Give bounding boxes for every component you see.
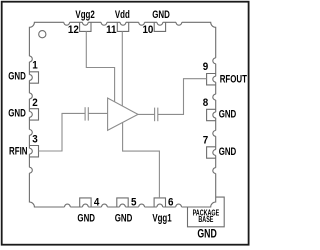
wire Vgg1: amplifier to pin 6 <box>123 122 160 198</box>
svg-text:GND: GND <box>219 108 237 121</box>
pin 8 pad (GND) <box>207 109 217 120</box>
pin 6 pad (Vgg1) <box>154 198 165 208</box>
svg-text:7: 7 <box>203 134 209 147</box>
svg-text:3: 3 <box>32 133 38 146</box>
package outline <box>29 22 215 207</box>
castellation bump right edge at 133.4 <box>213 131 217 137</box>
castellation bump left edge at 132.4 <box>29 130 33 136</box>
svg-text:GND: GND <box>8 107 26 120</box>
castellation bump left edge at 59.0 <box>29 56 33 62</box>
svg-text:RFOUT: RFOUT <box>220 73 247 86</box>
label PACKAGE BASE <box>193 210 220 225</box>
svg-text:5: 5 <box>131 196 137 209</box>
svg-text:Vgg2: Vgg2 <box>75 9 95 22</box>
svg-text:BASE: BASE <box>198 216 213 224</box>
svg-text:11: 11 <box>106 23 117 36</box>
castellation bump right edge at 170.6 <box>213 168 217 174</box>
pin 11 pad (Vdd) <box>117 21 128 31</box>
castellation bump top edge at 141.6 <box>139 21 145 25</box>
wire Vdd: pin 11 to amplifier <box>121 31 123 106</box>
svg-text:GND: GND <box>152 9 170 22</box>
package base tab outline <box>188 197 225 227</box>
wire RFIN: pin 3 to C1 <box>39 113 86 151</box>
pin 3 pad (RFIN) <box>29 146 39 157</box>
pin 2 pad (GND) <box>29 109 39 120</box>
svg-text:9: 9 <box>203 60 209 73</box>
svg-text:Vgg1: Vgg1 <box>152 212 172 225</box>
svg-text:GND: GND <box>115 212 133 225</box>
svg-text:8: 8 <box>203 96 209 109</box>
pin 9 pad (RFOUT) <box>207 74 217 85</box>
castellation bump left edge at 170.2 <box>29 167 33 173</box>
pin 10 pad (GND) <box>154 21 165 31</box>
castellation bump bot edge at 67.4 <box>65 204 71 208</box>
castellation bump bot edge at 178.6 <box>176 204 182 208</box>
pin 1 indicator dot <box>39 31 46 38</box>
castellation bump bot edge at 104.4 <box>102 204 108 208</box>
pin 12 pad (Vgg2) <box>80 21 91 31</box>
pin 5 pad (GND) <box>117 198 128 208</box>
wire amplifier output to C2 <box>138 113 155 115</box>
castellation bump top edge at 66.7 <box>64 21 70 25</box>
svg-text:GND: GND <box>8 70 26 83</box>
svg-text:RFIN: RFIN <box>9 145 27 158</box>
castellation bump top edge at 104.0 <box>101 21 107 25</box>
castellation bump top edge at 178.9 <box>176 21 182 25</box>
wire C1 to amplifier input <box>88 112 107 114</box>
castellation bump bot edge at 141.6 <box>139 204 145 208</box>
svg-text:GND: GND <box>219 146 237 159</box>
castellation bump right edge at 60.8 <box>213 58 217 64</box>
svg-text:GND: GND <box>197 227 217 241</box>
svg-text:12: 12 <box>68 23 79 36</box>
pin 1 pad (GND) <box>29 72 39 83</box>
svg-text:4: 4 <box>94 196 100 209</box>
svg-text:Vdd: Vdd <box>115 9 130 22</box>
castellation bump right edge at 97.1 <box>213 94 217 100</box>
svg-text:1: 1 <box>32 59 38 72</box>
pin 7 pad (GND) <box>207 147 217 158</box>
wire Vgg2: pin 12 to amplifier <box>86 31 114 102</box>
svg-text:10: 10 <box>142 23 153 36</box>
svg-text:6: 6 <box>168 196 174 209</box>
amplifier U1 <box>108 98 138 130</box>
pin 4 pad (GND) <box>80 198 91 208</box>
capacitor C2 (output DC block) <box>155 108 158 122</box>
castellation bump left edge at 96.0 <box>29 93 33 99</box>
wire C2 to pin 9 RFOUT <box>158 79 207 115</box>
svg-text:2: 2 <box>32 96 38 109</box>
svg-text:GND: GND <box>77 212 95 225</box>
capacitor C1 (input DC block) <box>85 107 88 120</box>
